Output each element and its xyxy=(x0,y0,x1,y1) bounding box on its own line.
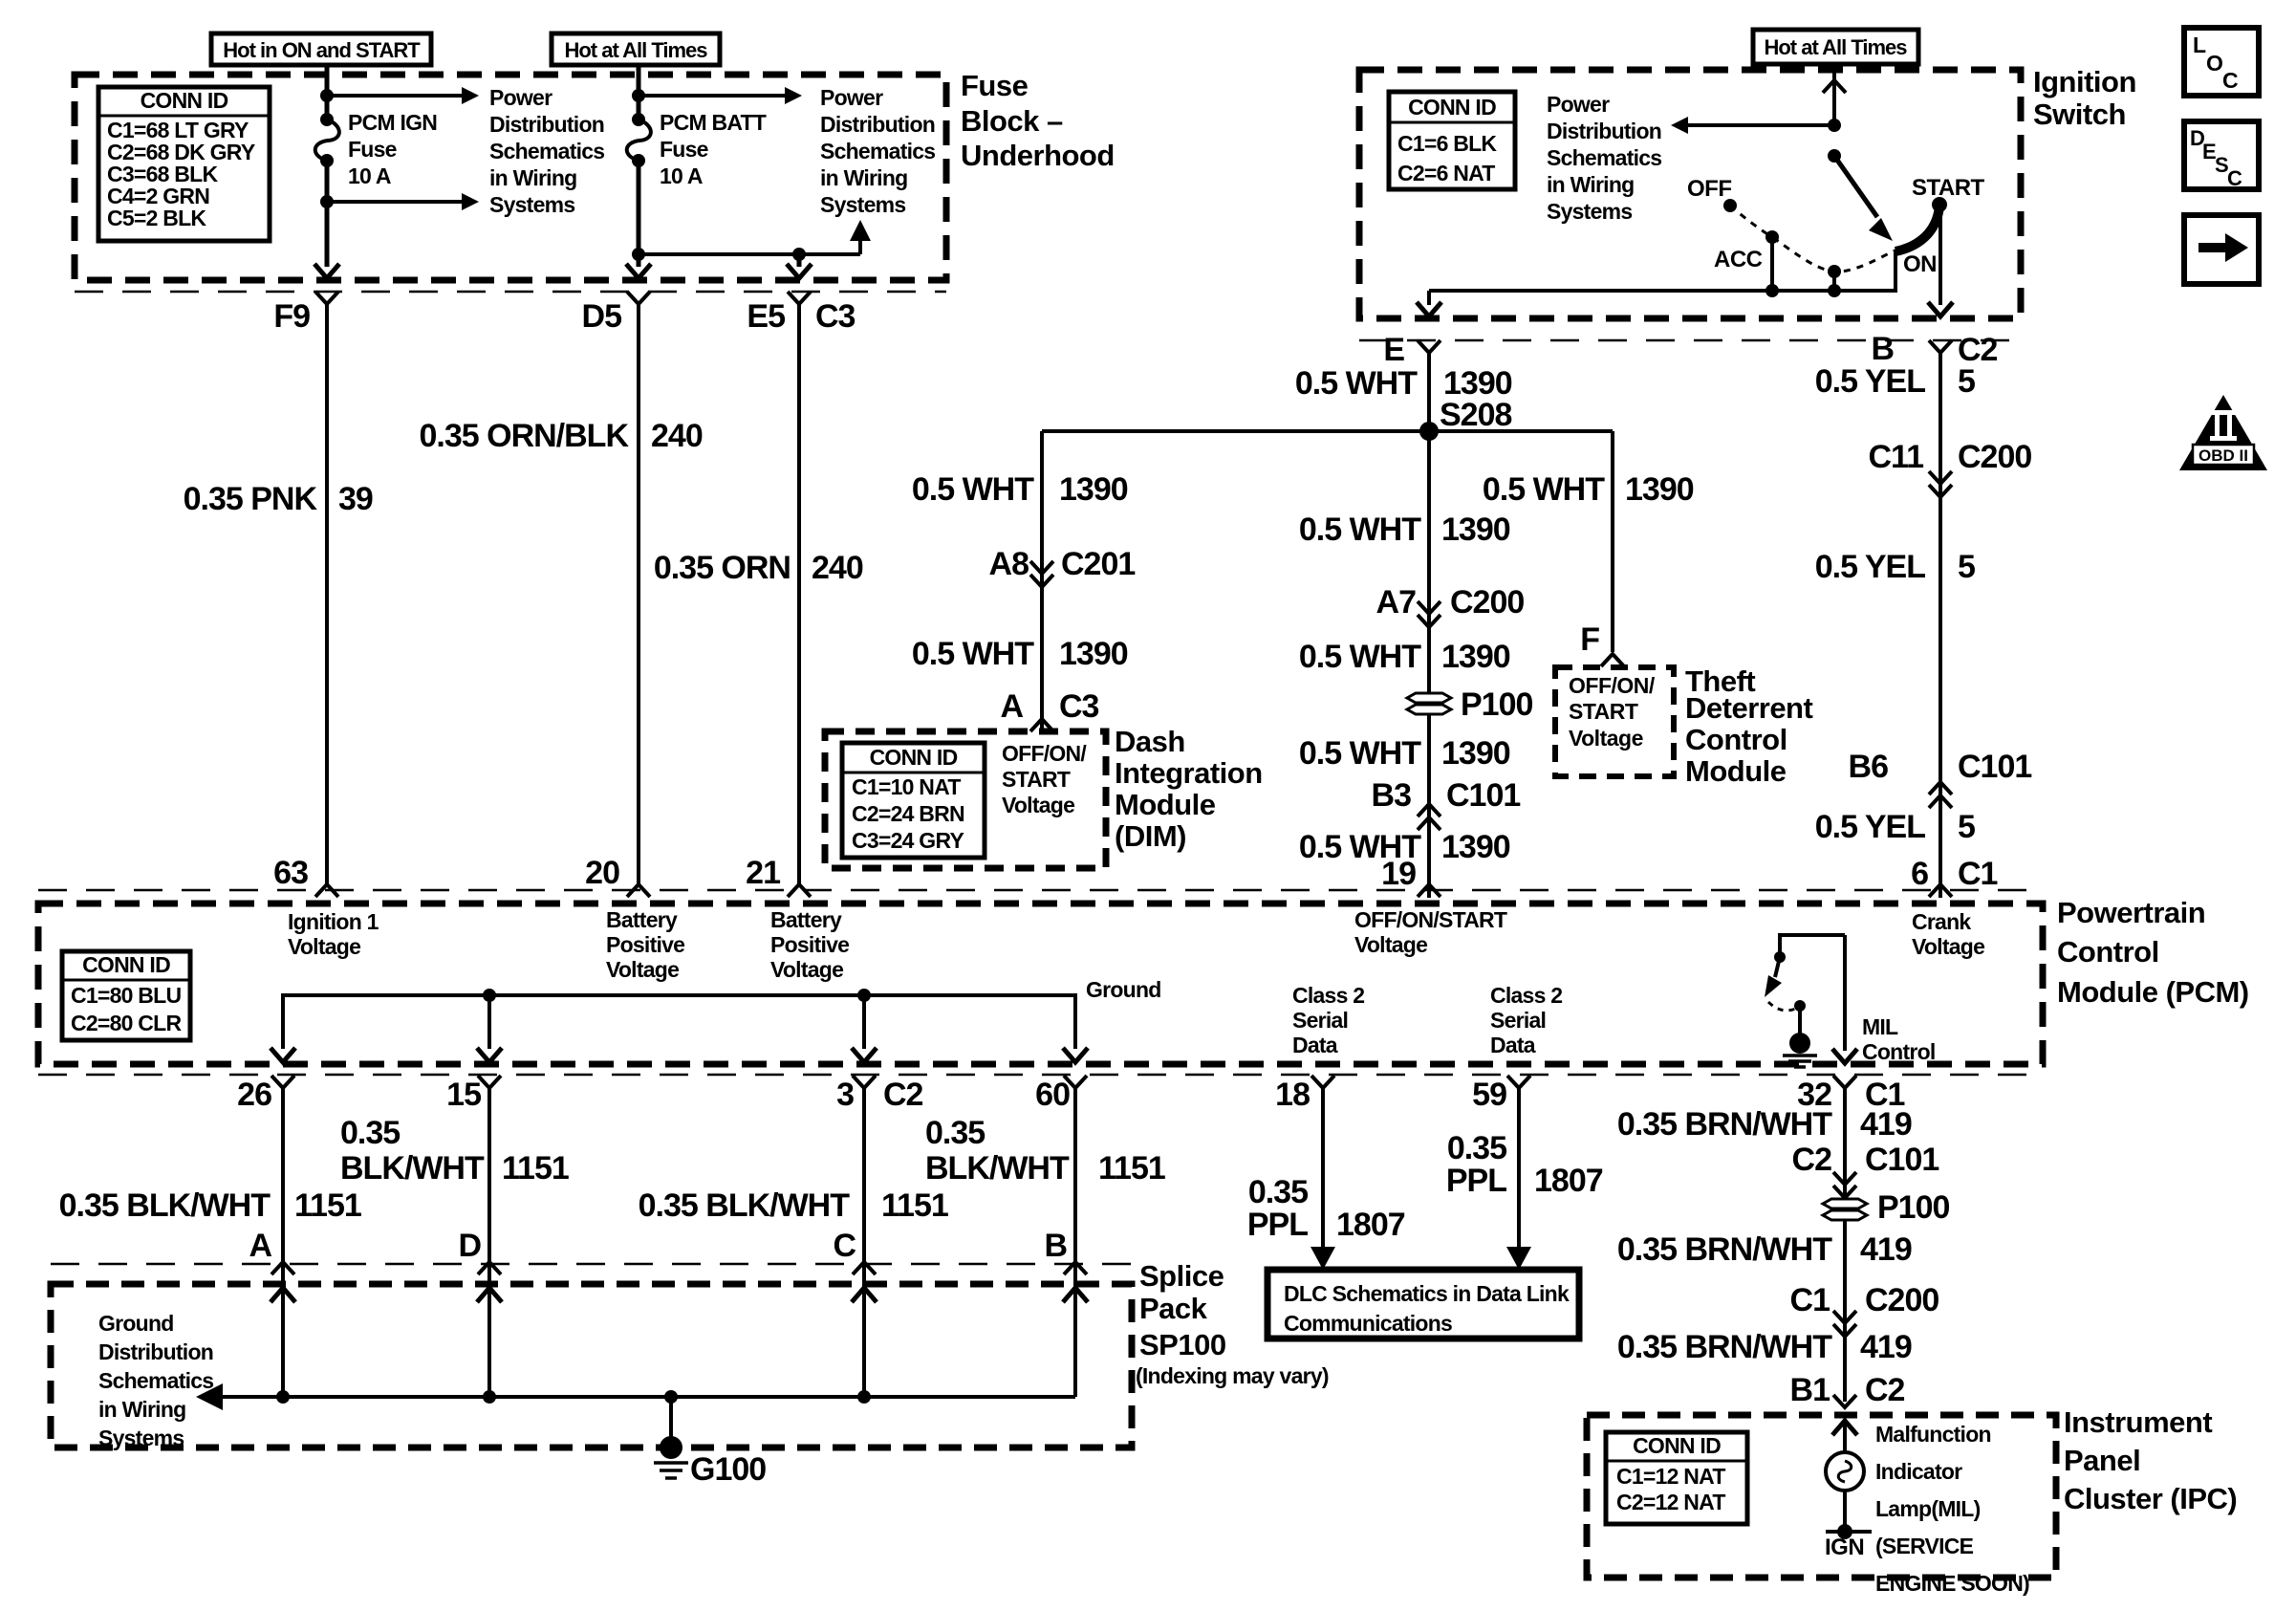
powertrain control module box xyxy=(38,903,2043,1064)
svg-text:Fuse: Fuse xyxy=(660,137,708,162)
svg-text:Lamp(MIL): Lamp(MIL) xyxy=(1875,1496,1981,1521)
entry caret DIM xyxy=(1030,719,1053,731)
svg-text:G100: G100 xyxy=(690,1451,766,1488)
splice entry arrow C xyxy=(852,1288,877,1302)
wire BLK/WHT A xyxy=(281,1088,285,1397)
connector line below ignition switch xyxy=(1359,339,2021,342)
wire 0.35 PPL 1807 (18) xyxy=(1321,1088,1325,1249)
label box "Hot in ON and START" xyxy=(211,33,431,65)
svg-text:419: 419 xyxy=(1860,1329,1912,1365)
svg-text:DLC Schematics in Data Link: DLC Schematics in Data Link xyxy=(1284,1281,1570,1306)
junction dot xyxy=(857,989,871,1002)
svg-text:Power: Power xyxy=(489,85,552,110)
svg-text:Instrument: Instrument xyxy=(2064,1405,2212,1439)
svg-text:C2: C2 xyxy=(1792,1142,1832,1178)
svg-text:0.5 WHT: 0.5 WHT xyxy=(912,636,1034,672)
svg-text:C2: C2 xyxy=(883,1077,923,1113)
svg-text:Schematics: Schematics xyxy=(98,1368,213,1393)
svg-text:ON: ON xyxy=(1903,251,1937,277)
link arc dot to output bus xyxy=(1832,272,1836,291)
svg-text:1390: 1390 xyxy=(1625,471,1694,508)
splice entry arrow B xyxy=(1063,1288,1088,1302)
IGN terminal dot xyxy=(1837,1524,1852,1539)
arrow up to systems (right) xyxy=(858,241,862,254)
DLC schematics box xyxy=(1267,1270,1579,1339)
ignition switch box xyxy=(1359,70,2021,318)
entry caret (ignition feed) xyxy=(1823,80,1846,93)
junction dot xyxy=(1828,119,1841,132)
IGN terminal bar xyxy=(1826,1530,1872,1534)
svg-text:C3: C3 xyxy=(815,298,856,335)
arrow left to power distribution xyxy=(1688,123,1834,127)
connector caret pin 3 xyxy=(853,1076,876,1088)
svg-text:MIL: MIL xyxy=(1862,1014,1898,1039)
svg-text:0.35: 0.35 xyxy=(1248,1174,1308,1210)
svg-text:PPL: PPL xyxy=(1247,1207,1308,1243)
svg-text:Control: Control xyxy=(2057,935,2159,969)
wire 0.5 WHT S208 to PCM 19 xyxy=(1427,431,1431,898)
DIM box xyxy=(825,731,1106,868)
instrument panel cluster box xyxy=(1587,1415,2056,1578)
connector line splice pack xyxy=(51,1263,1132,1266)
wire BLK/WHT B xyxy=(1073,1088,1077,1397)
svg-text:1390: 1390 xyxy=(1059,471,1128,508)
svg-text:Voltage: Voltage xyxy=(1912,934,1984,959)
G100 ground hatches xyxy=(654,1461,688,1465)
svg-text:Serial: Serial xyxy=(1292,1008,1348,1033)
switch output bus xyxy=(1429,250,1895,291)
svg-text:0.35 ORN: 0.35 ORN xyxy=(654,550,791,586)
svg-text:0.35 BRN/WHT: 0.35 BRN/WHT xyxy=(1617,1231,1832,1268)
svg-text:Distribution: Distribution xyxy=(489,112,604,137)
svg-text:(SERVICE: (SERVICE xyxy=(1875,1534,1974,1558)
svg-text:15: 15 xyxy=(446,1077,481,1113)
CONN ID table (ignition switch) xyxy=(1389,92,1515,189)
svg-text:3: 3 xyxy=(836,1077,854,1113)
svg-text:PPL: PPL xyxy=(1446,1163,1506,1199)
ground bus xyxy=(212,1395,1075,1399)
wire 0.35 ORN 240 xyxy=(797,304,801,884)
svg-text:Schematics: Schematics xyxy=(489,139,604,163)
svg-text:Class 2: Class 2 xyxy=(1292,983,1364,1008)
svg-text:BLK/WHT: BLK/WHT xyxy=(340,1150,485,1186)
wire B exit xyxy=(1939,207,1942,305)
arrow at border 3 xyxy=(852,1048,877,1062)
svg-text:E: E xyxy=(1383,332,1404,368)
svg-text:F9: F9 xyxy=(273,298,310,335)
wire 0.5 WHT to A8 xyxy=(1040,431,1044,731)
svg-text:C1: C1 xyxy=(1790,1282,1830,1318)
entry caret theft module xyxy=(1601,654,1624,666)
svg-text:Ground: Ground xyxy=(1086,977,1161,1002)
svg-text:0.35 BRN/WHT: 0.35 BRN/WHT xyxy=(1617,1106,1832,1143)
svg-text:Voltage: Voltage xyxy=(770,957,843,982)
connector caret pin 18 xyxy=(1311,1076,1334,1088)
svg-text:START: START xyxy=(1002,767,1071,792)
svg-text:Systems: Systems xyxy=(98,1426,184,1450)
svg-text:0.35: 0.35 xyxy=(1447,1130,1506,1166)
svg-text:1390: 1390 xyxy=(1441,639,1510,675)
svg-text:C200: C200 xyxy=(1450,584,1524,620)
svg-text:Hot at All Times: Hot at All Times xyxy=(1764,35,1907,59)
splice entry arrow D xyxy=(477,1288,502,1302)
svg-text:CONN ID: CONN ID xyxy=(1408,95,1496,120)
svg-text:in Wiring: in Wiring xyxy=(489,165,576,190)
svg-text:B3: B3 xyxy=(1372,777,1412,814)
splice caret D xyxy=(478,1262,501,1274)
svg-text:C101: C101 xyxy=(1446,777,1520,814)
fuse block - underhood box xyxy=(75,75,946,280)
svg-text:1390: 1390 xyxy=(1059,636,1128,672)
svg-text:Data: Data xyxy=(1292,1033,1338,1057)
svg-text:21: 21 xyxy=(746,855,780,891)
svg-text:Voltage: Voltage xyxy=(1354,932,1427,957)
junction dot xyxy=(320,195,334,208)
arrow at border 60 xyxy=(1063,1048,1088,1062)
svg-text:B: B xyxy=(1044,1228,1067,1264)
svg-text:0.5 WHT: 0.5 WHT xyxy=(1299,639,1421,675)
svg-text:1151: 1151 xyxy=(881,1187,948,1224)
splice pack SP100 box xyxy=(51,1284,1132,1448)
svg-text:Fuse: Fuse xyxy=(961,69,1029,102)
connector C101 chevrons xyxy=(1418,804,1440,816)
svg-text:19: 19 xyxy=(1381,856,1416,892)
svg-text:Hot in ON and START: Hot in ON and START xyxy=(223,38,421,62)
svg-text:ENGINE SOON): ENGINE SOON) xyxy=(1875,1571,2029,1596)
wire 0.5 WHT to theft module xyxy=(1611,431,1614,652)
wire MIL control xyxy=(1843,935,1847,1051)
svg-text:PCM IGN: PCM IGN xyxy=(348,110,437,135)
svg-text:Schematics: Schematics xyxy=(1547,145,1661,170)
svg-text:0.35 BLK/WHT: 0.35 BLK/WHT xyxy=(639,1187,851,1224)
svg-text:C3: C3 xyxy=(1059,688,1099,725)
splice caret C xyxy=(853,1262,876,1274)
internal drop 15 xyxy=(487,995,491,1049)
wire PCM BATT feed xyxy=(637,63,641,120)
svg-text:IGN: IGN xyxy=(1825,1535,1864,1560)
svg-text:6: 6 xyxy=(1911,856,1928,892)
ground hatches (PCM internal) xyxy=(1783,1054,1817,1057)
OFF contact dot xyxy=(1723,199,1737,212)
svg-text:Hot at All Times: Hot at All Times xyxy=(564,38,707,62)
splice caret B xyxy=(1064,1262,1087,1274)
svg-text:0.5 WHT: 0.5 WHT xyxy=(1295,365,1418,402)
svg-text:Dash: Dash xyxy=(1115,725,1185,758)
pass-through grommet P100 xyxy=(1407,693,1451,703)
CONN ID table (PCM) xyxy=(62,951,190,1040)
internal drop 3 xyxy=(862,995,866,1049)
svg-text:Distribution: Distribution xyxy=(98,1339,213,1364)
svg-text:0.35 BLK/WHT: 0.35 BLK/WHT xyxy=(59,1187,271,1224)
svg-text:Control: Control xyxy=(1862,1039,1936,1064)
key travel thick arc xyxy=(1895,207,1939,251)
connector C101 chevrons (yel) xyxy=(1929,782,1952,795)
junction dot xyxy=(276,1390,290,1404)
wire E5 to border xyxy=(797,254,802,267)
junction dot xyxy=(483,1390,496,1404)
connector caret D5 xyxy=(627,292,650,304)
svg-text:18: 18 xyxy=(1275,1077,1310,1113)
svg-text:Communications: Communications xyxy=(1284,1311,1452,1336)
svg-text:C1=10 NAT: C1=10 NAT xyxy=(852,774,961,799)
svg-text:0.5 YEL: 0.5 YEL xyxy=(1815,363,1925,400)
svg-text:0.35 BRN/WHT: 0.35 BRN/WHT xyxy=(1617,1329,1832,1365)
svg-text:Indicator: Indicator xyxy=(1875,1459,1962,1484)
svg-text:A: A xyxy=(1000,688,1023,725)
junction dot xyxy=(792,248,806,261)
connector C200 chevrons xyxy=(1418,601,1440,614)
svg-text:Malfunction: Malfunction xyxy=(1875,1422,1991,1447)
wire to MIL lamp xyxy=(1843,1421,1847,1452)
svg-text:C2=24 BRN: C2=24 BRN xyxy=(852,801,964,826)
svg-text:OFF: OFF xyxy=(1687,176,1732,202)
svg-text:39: 39 xyxy=(338,481,373,517)
svg-text:C1: C1 xyxy=(1958,856,1998,892)
svg-text:START: START xyxy=(1912,175,1985,201)
svg-text:5: 5 xyxy=(1958,549,1975,585)
svg-text:Power: Power xyxy=(820,85,883,110)
wire D5 to border xyxy=(637,254,641,267)
svg-text:C2=6 NAT: C2=6 NAT xyxy=(1397,161,1495,185)
svg-text:C2=80 CLR: C2=80 CLR xyxy=(71,1011,182,1035)
junction dot xyxy=(664,1390,678,1404)
svg-text:OFF/ON/: OFF/ON/ xyxy=(1002,741,1087,766)
svg-text:Crank: Crank xyxy=(1912,909,1971,934)
connector C101 chevrons (brn) xyxy=(1833,1172,1856,1185)
ground dot (PCM internal) xyxy=(1789,1033,1810,1054)
ground bus arrowhead xyxy=(196,1383,223,1410)
svg-text:C5=2 BLK: C5=2 BLK xyxy=(107,206,206,230)
branch wire S208 xyxy=(1042,429,1613,433)
splice S208 xyxy=(1419,422,1439,441)
svg-text:1390: 1390 xyxy=(1441,735,1510,772)
svg-text:0.5 YEL: 0.5 YEL xyxy=(1815,549,1925,585)
svg-text:0.35: 0.35 xyxy=(340,1115,400,1151)
svg-text:Voltage: Voltage xyxy=(606,957,679,982)
svg-text:PCM BATT: PCM BATT xyxy=(660,110,767,135)
svg-text:Control: Control xyxy=(1685,723,1787,756)
wire 0.35 BRN/WHT xyxy=(1843,1088,1847,1402)
wire F9 to border xyxy=(325,202,330,267)
svg-text:0.5 WHT: 0.5 WHT xyxy=(1299,735,1421,772)
connector caret F9 xyxy=(315,292,338,304)
svg-text:CONN ID: CONN ID xyxy=(1633,1433,1721,1458)
arrow to systems (lower left) xyxy=(327,200,463,204)
junction dot xyxy=(632,89,645,102)
svg-text:Panel: Panel xyxy=(2064,1444,2140,1477)
svg-text:CONN ID: CONN ID xyxy=(870,745,958,770)
wire from hot at all times xyxy=(1832,64,1836,125)
svg-text:0.5 WHT: 0.5 WHT xyxy=(912,471,1034,508)
ACC contact dot xyxy=(1765,230,1779,244)
svg-text:Battery: Battery xyxy=(770,907,842,932)
svg-text:B: B xyxy=(1871,331,1894,367)
svg-text:Pack: Pack xyxy=(1139,1292,1208,1325)
link ACC to output bus xyxy=(1770,237,1774,291)
svg-text:C: C xyxy=(2227,166,2242,190)
entry caret IPC xyxy=(1833,1395,1856,1407)
junction dot xyxy=(857,1390,871,1404)
svg-text:C1=6 BLK: C1=6 BLK xyxy=(1397,131,1497,156)
svg-text:1807: 1807 xyxy=(1336,1207,1405,1243)
wire PCM IGN feed xyxy=(325,63,330,120)
PCM internal ground bus xyxy=(283,995,1075,1049)
svg-text:P100: P100 xyxy=(1461,686,1532,723)
splice entry arrow A xyxy=(271,1288,295,1302)
svg-text:C101: C101 xyxy=(1958,749,2031,785)
svg-text:C200: C200 xyxy=(1958,439,2031,475)
connector line PCM bottom xyxy=(38,1074,2043,1077)
svg-text:C2=12 NAT: C2=12 NAT xyxy=(1616,1490,1725,1514)
arrow at border 15 xyxy=(477,1048,502,1062)
wire BLK/WHT C xyxy=(862,1088,866,1397)
connector caret pin 59 xyxy=(1507,1076,1530,1088)
junction dot xyxy=(632,248,645,261)
wire 0.35 PPL 1807 (59) xyxy=(1517,1088,1521,1249)
entry caret PCM 19 xyxy=(1418,884,1440,897)
G100 ground dot xyxy=(660,1436,682,1459)
G100 branch xyxy=(669,1397,673,1439)
wire 0.5 WHT E to S208 xyxy=(1427,353,1431,431)
wire E exit xyxy=(1427,291,1431,305)
svg-text:1151: 1151 xyxy=(502,1150,569,1186)
svg-text:L: L xyxy=(2193,33,2206,57)
svg-text:Block –: Block – xyxy=(961,104,1063,138)
svg-text:Switch: Switch xyxy=(2033,98,2126,131)
svg-text:in Wiring: in Wiring xyxy=(820,165,907,190)
svg-text:Battery: Battery xyxy=(606,907,678,932)
entry caret PCM 63 xyxy=(315,884,338,897)
wire 0.5 YEL B to PCM 6 xyxy=(1939,353,1942,898)
connector caret pin 60 xyxy=(1064,1076,1087,1088)
svg-text:C3=24 GRY: C3=24 GRY xyxy=(852,828,964,853)
svg-text:Class 2: Class 2 xyxy=(1490,983,1562,1008)
svg-text:Ground: Ground xyxy=(98,1311,174,1336)
svg-text:C1=12 NAT: C1=12 NAT xyxy=(1616,1464,1725,1489)
entry arrow IPC xyxy=(1832,1421,1857,1435)
svg-text:Fuse: Fuse xyxy=(348,137,397,162)
DESC icon xyxy=(2184,121,2259,189)
svg-text:10 A: 10 A xyxy=(660,163,703,188)
svg-text:59: 59 xyxy=(1472,1077,1506,1113)
label box "Hot at All Times" (ignition switch) xyxy=(1753,30,1918,64)
fuse PCM BATT 10A xyxy=(632,113,645,126)
svg-text:OFF/ON/: OFF/ON/ xyxy=(1569,673,1656,698)
label box "Hot at All Times" (fuse block) xyxy=(552,33,720,65)
svg-text:Ignition: Ignition xyxy=(2033,65,2136,98)
svg-text:Deterrent: Deterrent xyxy=(1685,691,1812,725)
connector caret B xyxy=(1929,340,1952,353)
svg-text:in Wiring: in Wiring xyxy=(1547,172,1634,197)
LOC icon xyxy=(2184,28,2259,96)
svg-text:1151: 1151 xyxy=(1098,1150,1165,1186)
svg-text:Module (PCM): Module (PCM) xyxy=(2057,975,2249,1009)
junction dot xyxy=(483,989,496,1002)
svg-text:Serial: Serial xyxy=(1490,1008,1546,1033)
connector C200 chevrons (brn) xyxy=(1833,1311,1856,1323)
splice caret A xyxy=(271,1262,294,1274)
svg-text:Distribution: Distribution xyxy=(820,112,935,137)
svg-text:A: A xyxy=(249,1228,271,1264)
svg-text:Module: Module xyxy=(1685,754,1787,788)
connector line PCM top xyxy=(38,889,2043,892)
svg-text:Voltage: Voltage xyxy=(1569,726,1643,751)
svg-text:Cluster (IPC): Cluster (IPC) xyxy=(2064,1482,2237,1515)
svg-text:Schematics: Schematics xyxy=(820,139,935,163)
wire 0.35 PNK 39 xyxy=(325,304,329,884)
pass-through grommet P100 (brn) xyxy=(1823,1199,1867,1208)
svg-text:Systems: Systems xyxy=(1547,199,1632,224)
wire below fuse PCM IGN xyxy=(325,161,330,202)
svg-text:C2: C2 xyxy=(1865,1372,1905,1408)
svg-text:5: 5 xyxy=(1958,809,1975,845)
svg-text:Module: Module xyxy=(1115,788,1216,821)
wire BLK/WHT D xyxy=(487,1088,491,1397)
svg-text:0.5 WHT: 0.5 WHT xyxy=(1299,512,1421,548)
CONN ID table (DIM) xyxy=(842,743,985,858)
entry caret PCM 21 xyxy=(788,884,811,897)
svg-text:BLK/WHT: BLK/WHT xyxy=(925,1150,1070,1186)
START contact dot xyxy=(1932,197,1947,212)
svg-text:240: 240 xyxy=(651,418,703,454)
svg-text:(Indexing may vary): (Indexing may vary) xyxy=(1136,1363,1329,1388)
svg-text:(DIM): (DIM) xyxy=(1115,819,1186,853)
svg-text:20: 20 xyxy=(585,855,619,891)
svg-text:1807: 1807 xyxy=(1534,1163,1603,1199)
svg-text:SP100: SP100 xyxy=(1139,1328,1226,1361)
entry caret PCM 20 xyxy=(627,884,650,897)
switch common dot xyxy=(1828,149,1841,163)
svg-text:A8: A8 xyxy=(989,546,1029,582)
wire horizontal to E5/C3 xyxy=(639,252,860,256)
svg-text:D: D xyxy=(458,1228,481,1264)
svg-text:Power: Power xyxy=(1547,92,1610,117)
svg-text:240: 240 xyxy=(812,550,863,586)
svg-text:26: 26 xyxy=(237,1077,271,1113)
svg-text:ACC: ACC xyxy=(1714,247,1763,272)
svg-text:O: O xyxy=(2206,51,2222,76)
svg-text:E5: E5 xyxy=(747,298,785,335)
svg-text:B6: B6 xyxy=(1849,749,1889,785)
svg-text:CONN ID: CONN ID xyxy=(141,88,228,113)
MIL switch dashed arc xyxy=(1768,1002,1798,1011)
svg-text:Distribution: Distribution xyxy=(1547,119,1661,143)
arrow icon xyxy=(2184,215,2259,284)
svg-text:C201: C201 xyxy=(1061,546,1135,582)
svg-text:0.5 YEL: 0.5 YEL xyxy=(1815,809,1925,845)
connector C201 chevrons xyxy=(1030,561,1053,574)
svg-text:1390: 1390 xyxy=(1441,512,1510,548)
connector caret pin 26 xyxy=(271,1076,294,1088)
svg-text:5: 5 xyxy=(1958,363,1975,400)
connector caret E xyxy=(1418,340,1440,353)
svg-text:Positive: Positive xyxy=(606,932,684,957)
svg-text:C: C xyxy=(833,1228,856,1264)
MIL switch contact dot xyxy=(1794,1000,1806,1012)
connector caret pin 15 xyxy=(478,1076,501,1088)
svg-text:0.35: 0.35 xyxy=(925,1115,985,1151)
arrow at border 26 xyxy=(271,1048,295,1062)
entry caret PCM 6 xyxy=(1929,884,1952,897)
CONN ID table (IPC) xyxy=(1606,1432,1747,1524)
theft deterrent control module box xyxy=(1555,667,1674,776)
connector C200 chevrons (yel) xyxy=(1929,471,1952,484)
svg-text:419: 419 xyxy=(1860,1106,1912,1143)
junction dot xyxy=(1828,284,1841,297)
svg-text:0.35 PNK: 0.35 PNK xyxy=(184,481,318,517)
svg-text:Positive: Positive xyxy=(770,932,849,957)
svg-text:Underhood: Underhood xyxy=(961,139,1115,172)
